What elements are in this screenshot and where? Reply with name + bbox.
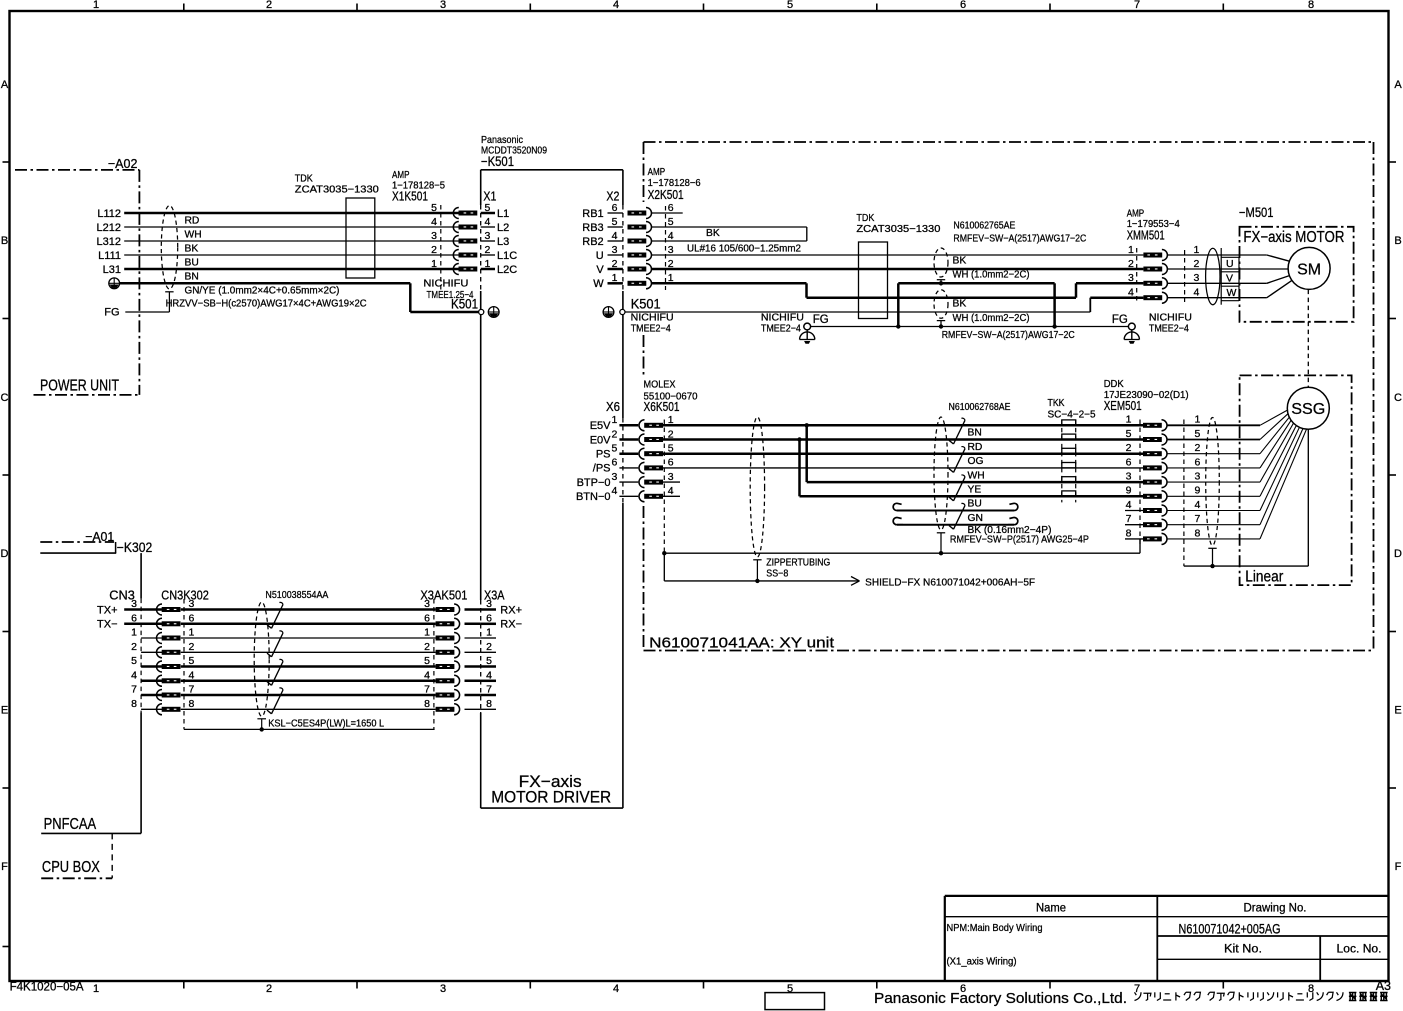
svg-text:MOLEX: MOLEX — [644, 380, 676, 391]
svg-text:1: 1 — [1195, 414, 1201, 426]
svg-text:PNFCAA: PNFCAA — [44, 816, 97, 833]
svg-text:4: 4 — [486, 669, 492, 681]
wire RB1 stub — [652, 212, 683, 214]
shield-FX drain wire — [664, 553, 1035, 588]
svg-text:A: A — [1394, 79, 1402, 91]
svg-text:SHIELD−FX N610071042+006AH−5F: SHIELD−FX N610071042+006AH−5F — [865, 578, 1035, 589]
svg-text:TDK: TDK — [856, 213, 874, 224]
wire WH core K501 to XMM pin4 — [625, 298, 1143, 312]
wire /PS (WH core) — [663, 467, 1143, 469]
svg-text:WH: WH — [185, 229, 202, 240]
svg-text:4: 4 — [131, 669, 137, 681]
svg-text:2: 2 — [131, 641, 137, 653]
svg-text:−A02: −A02 — [108, 156, 137, 171]
svg-text:ZCAT3035−1330: ZCAT3035−1330 — [295, 185, 379, 196]
svg-text:NICHIFU: NICHIFU — [1149, 312, 1192, 323]
wire V — [652, 268, 1144, 271]
svg-text:1: 1 — [1194, 244, 1200, 256]
FG bus wire — [811, 327, 1129, 341]
svg-text:WH: WH — [968, 470, 985, 481]
connector CN3 label — [109, 588, 504, 603]
branch E0V to BU core — [800, 440, 1144, 497]
cable shield oval HRZVV — [161, 206, 177, 312]
svg-text:3: 3 — [668, 244, 674, 256]
svg-text:SSG: SSG — [1291, 401, 1325, 418]
svg-text:4: 4 — [611, 485, 617, 497]
svg-text:GN/YE (1.0mm2×4C+0.65mm×2C): GN/YE (1.0mm2×4C+0.65mm×2C) — [185, 286, 340, 297]
svg-text:CPU BOX: CPU BOX — [42, 859, 100, 876]
Linear scale block — [1240, 375, 1352, 585]
svg-text:RB1: RB1 — [582, 208, 603, 220]
svg-text:RX−: RX− — [500, 619, 522, 631]
FG terminal 2 NICHIFU TMEE2-4 — [1112, 312, 1192, 344]
svg-text:X6K501: X6K501 — [644, 399, 680, 414]
link SM to SSG (dashed) — [1307, 290, 1309, 388]
svg-text:ZIPPERTUBING: ZIPPERTUBING — [766, 558, 830, 569]
shield oval SSG cable — [1206, 418, 1220, 569]
ferrite TDK ZCAT3035-1330 (1) — [295, 173, 379, 278]
svg-text:5: 5 — [668, 216, 674, 228]
svg-text:BK: BK — [953, 255, 967, 266]
svg-text:W: W — [1227, 287, 1237, 299]
svg-text:5: 5 — [486, 655, 492, 667]
svg-text:2: 2 — [266, 983, 272, 995]
svg-text:7: 7 — [424, 684, 430, 696]
encoder cable shield oval (X6 side) — [750, 417, 764, 581]
svg-text:D: D — [1, 548, 9, 560]
svg-text:W: W — [593, 278, 604, 290]
connector X1 label — [483, 188, 496, 203]
svg-text:U: U — [1226, 258, 1234, 270]
svg-text:GN: GN — [968, 513, 983, 524]
svg-text:7: 7 — [1126, 513, 1132, 525]
svg-text:8: 8 — [1308, 0, 1314, 11]
svg-text:3: 3 — [486, 598, 492, 610]
svg-text:F: F — [1, 861, 8, 873]
svg-text:Linear: Linear — [1245, 569, 1283, 586]
svg-text:5: 5 — [787, 0, 793, 11]
svg-text:SM: SM — [1297, 261, 1321, 278]
terminal K501 NICHIFU TMEE2-4 (X2 side) — [603, 297, 674, 335]
svg-text:5: 5 — [424, 655, 430, 667]
svg-text:4: 4 — [1126, 499, 1132, 511]
connector XMM501 pins — [1128, 244, 1200, 303]
svg-text:MOTOR DRIVER: MOTOR DRIVER — [491, 788, 611, 807]
svg-text:4: 4 — [612, 230, 618, 242]
svg-text:1: 1 — [486, 627, 492, 639]
hook BK core — [893, 518, 1018, 525]
svg-text:3: 3 — [1126, 471, 1132, 483]
svg-text:F4K1020−05A: F4K1020−05A — [10, 979, 84, 993]
svg-text:1: 1 — [611, 414, 617, 426]
svg-text:BK: BK — [185, 243, 199, 254]
X3A pin stubs and RX labels — [481, 598, 522, 710]
svg-text:BK: BK — [953, 299, 967, 310]
XY unit boundary box N610071041AA — [644, 142, 1374, 652]
svg-text:5: 5 — [131, 655, 137, 667]
svg-text:NPM:Main Body Wiring: NPM:Main Body Wiring — [947, 923, 1043, 934]
svg-text:−K501: −K501 — [481, 154, 514, 169]
svg-text:Panasonic: Panasonic — [481, 135, 523, 146]
connector label AMP 1-179553-4 XMM501 — [1127, 209, 1180, 243]
svg-text:8: 8 — [424, 698, 430, 710]
X1 pin stubs inside driver — [481, 213, 495, 269]
svg-text:BU: BU — [185, 257, 199, 268]
svg-text:Panasonic Factory Solutions Co: Panasonic Factory Solutions Co.,Ltd. — [874, 991, 1127, 1007]
ferrite TDK ZCAT3035-1330 (2) — [856, 213, 940, 319]
svg-text:L2C: L2C — [497, 264, 517, 276]
svg-text:E0V: E0V — [590, 434, 611, 446]
svg-text:TMEE2−4: TMEE2−4 — [631, 323, 671, 334]
servo motor SM — [1288, 247, 1330, 289]
svg-text:2: 2 — [431, 244, 437, 256]
svg-text:AMP: AMP — [392, 170, 410, 181]
jumper wire BK RB3-RB2 — [652, 227, 807, 241]
svg-text:AMP: AMP — [1127, 209, 1145, 220]
svg-text:RMFEV−SW−P(2517) AWG25−4P: RMFEV−SW−P(2517) AWG25−4P — [950, 535, 1089, 546]
svg-text:BTP−0: BTP−0 — [577, 477, 611, 489]
svg-text:3: 3 — [1128, 272, 1134, 284]
FX-axis MOTOR block -M501 — [1239, 205, 1354, 322]
wire E5V (BN core) — [663, 423, 1143, 427]
svg-text:TDK: TDK — [295, 173, 313, 184]
svg-text:2: 2 — [611, 428, 617, 440]
svg-text:3: 3 — [1194, 272, 1200, 284]
shield oval 4P cable — [934, 417, 948, 555]
svg-text:2: 2 — [1126, 442, 1132, 454]
svg-text:2: 2 — [1194, 258, 1200, 270]
svg-text:K501: K501 — [631, 297, 661, 312]
wire color labels RD WH BK BU BN — [185, 215, 202, 282]
connector label DDK 17JE23090-02(D1) XEM501 — [1104, 379, 1189, 413]
sheet footer text — [10, 979, 1391, 1007]
svg-text:N610062768AE: N610062768AE — [949, 402, 1011, 413]
svg-text:3: 3 — [612, 244, 618, 256]
svg-text:BN: BN — [968, 428, 982, 439]
svg-text:/PS: /PS — [593, 463, 611, 475]
svg-text:1: 1 — [93, 0, 99, 11]
connector X2 label and pin stubs — [582, 188, 623, 290]
motor terminal labels U V W — [1221, 248, 1239, 305]
svg-text:3: 3 — [424, 598, 430, 610]
svg-text:D: D — [1394, 548, 1402, 560]
cable label N610062768AE — [949, 402, 1011, 413]
svg-text:FG: FG — [1112, 314, 1128, 326]
svg-text:5: 5 — [611, 443, 617, 455]
japanese company name (drawn strokes) — [1135, 992, 1388, 1000]
svg-text:TMEE2−4: TMEE2−4 — [761, 323, 801, 334]
stub BTN-0 — [663, 495, 680, 497]
svg-text:N510038554AA: N510038554AA — [265, 590, 328, 601]
svg-text:7: 7 — [131, 684, 137, 696]
wires into SM motor — [1267, 255, 1292, 298]
svg-text:3: 3 — [611, 471, 617, 483]
svg-text:WH (1.0mm2−2C): WH (1.0mm2−2C) — [953, 313, 1030, 324]
svg-text:5: 5 — [431, 202, 437, 214]
svg-text:2: 2 — [1128, 258, 1134, 270]
svg-text:BTN−0: BTN−0 — [576, 491, 611, 503]
svg-text:6: 6 — [668, 202, 674, 214]
cable shield oval N510038554AA — [254, 602, 269, 716]
svg-text:TKK: TKK — [1048, 398, 1065, 409]
FG wire and label (power unit) — [104, 307, 169, 319]
svg-text:4: 4 — [668, 485, 674, 497]
connector XEM501 pins — [1126, 414, 1201, 545]
svg-text:X1: X1 — [483, 188, 496, 203]
wires L112 L212 L312 L111 L31 to X1K501 — [124, 213, 459, 269]
SSG shield return wire — [1184, 429, 1308, 566]
wire E0V (RD core) — [663, 437, 1143, 441]
svg-text:8: 8 — [131, 698, 137, 710]
svg-text:L31: L31 — [103, 264, 121, 276]
svg-text:A3: A3 — [1376, 979, 1391, 993]
shield collector wire to FG — [896, 283, 1057, 328]
cable wires CN3K302 to X3AK501 — [181, 610, 436, 710]
svg-text:1: 1 — [93, 983, 99, 995]
svg-text:TX+: TX+ — [97, 604, 117, 616]
svg-text:K501: K501 — [451, 297, 478, 312]
svg-text:4: 4 — [613, 0, 619, 11]
svg-text:1: 1 — [612, 272, 618, 284]
svg-text:L3: L3 — [497, 236, 509, 248]
earth wire GN/YE from PE symbol — [109, 278, 479, 312]
connector X3AK501 pins — [424, 598, 481, 715]
svg-text:FG: FG — [813, 314, 829, 326]
svg-text:L112: L112 — [97, 208, 121, 220]
svg-text:4: 4 — [613, 983, 619, 995]
svg-text:HRZVV−SB−H(c2570)AWG17×4C+AWG1: HRZVV−SB−H(c2570)AWG17×4C+AWG19×2C — [166, 298, 368, 309]
svg-text:5: 5 — [1126, 428, 1132, 440]
svg-text:RD: RD — [185, 215, 200, 226]
svg-text:U: U — [596, 250, 604, 262]
svg-text:1: 1 — [1126, 414, 1132, 426]
stub BTP-0 — [663, 481, 680, 483]
svg-text:3: 3 — [440, 983, 446, 995]
connector X2K501 pins — [628, 202, 674, 290]
connector X1K501 pins — [441, 205, 478, 290]
connector boundary dash XMM right — [1184, 250, 1186, 302]
CPU box -A01 -K302 — [40, 529, 152, 599]
svg-text:UL#16 105/600−1.25mm2: UL#16 105/600−1.25mm2 — [687, 243, 801, 254]
svg-text:7: 7 — [1195, 513, 1201, 525]
svg-text:6: 6 — [424, 612, 430, 624]
svg-text:FX−axis MOTOR: FX−axis MOTOR — [1243, 229, 1344, 246]
signal labels L112..L31 and pin numbers X1 — [97, 202, 518, 276]
svg-text:2: 2 — [424, 641, 430, 653]
svg-text:6: 6 — [960, 0, 966, 11]
connector X6 label and stubs — [576, 399, 638, 503]
svg-text:1: 1 — [424, 627, 430, 639]
svg-text:6: 6 — [1195, 456, 1201, 468]
svg-text:L111: L111 — [98, 250, 121, 262]
wire W (BK core) — [652, 283, 1144, 297]
svg-text:7: 7 — [1134, 0, 1140, 11]
svg-text:XMM501: XMM501 — [1127, 227, 1165, 242]
power unit block -A02 — [15, 156, 139, 395]
wire U UL#16 — [652, 243, 1144, 255]
cable label N610062765AE RMFEV-SW-A — [953, 220, 1086, 244]
svg-text:B: B — [1394, 235, 1401, 247]
svg-text:ZCAT3035−1330: ZCAT3035−1330 — [856, 224, 940, 235]
svg-text:8: 8 — [486, 698, 492, 710]
svg-text:2: 2 — [486, 641, 492, 653]
svg-text:1: 1 — [1128, 244, 1134, 256]
svg-text:6: 6 — [668, 457, 674, 469]
svg-text:L2: L2 — [497, 222, 509, 234]
svg-text:V: V — [1226, 272, 1233, 284]
svg-text:L1: L1 — [497, 208, 509, 220]
svg-text:POWER UNIT: POWER UNIT — [40, 378, 119, 395]
svg-text:RMFEV−SW−A(2517)AWG17−2C: RMFEV−SW−A(2517)AWG17−2C — [942, 330, 1075, 341]
svg-text:TX−: TX− — [97, 619, 117, 631]
svg-text:6: 6 — [611, 457, 617, 469]
svg-text:RD: RD — [968, 442, 983, 453]
shield oval motor cable 1 (U/V) — [934, 248, 1030, 285]
PNFCAA / CPU BOX labels — [41, 713, 141, 879]
svg-text:X1K501: X1K501 — [392, 189, 428, 204]
svg-text:SS−8: SS−8 — [766, 569, 788, 580]
shield bus X6 — [662, 539, 1140, 556]
connector label AMP 1-178128-5 X1K501 — [392, 170, 445, 204]
svg-text:WH (1.0mm2−2C): WH (1.0mm2−2C) — [953, 269, 1030, 280]
svg-text:E: E — [1394, 705, 1401, 717]
svg-text:RX+: RX+ — [500, 604, 522, 616]
svg-text:4: 4 — [424, 669, 430, 681]
svg-text:X2K501: X2K501 — [648, 187, 684, 202]
scale head SSG — [1287, 387, 1329, 429]
svg-text:1: 1 — [189, 627, 195, 639]
svg-text:3: 3 — [131, 598, 137, 610]
svg-text:−K302: −K302 — [117, 540, 153, 555]
svg-text:4: 4 — [668, 230, 674, 242]
connector label AMP 1-178128-6 X2K501 — [646, 164, 706, 202]
connector label MOLEX 55100-0670 X6K501 — [642, 379, 704, 414]
svg-text:BN: BN — [185, 271, 199, 282]
cable length label KSL — [184, 719, 435, 732]
svg-text:F: F — [1395, 861, 1402, 873]
svg-text:XEM501: XEM501 — [1104, 398, 1142, 413]
svg-text:A: A — [1, 79, 9, 91]
svg-text:N610071042+005AG: N610071042+005AG — [1179, 922, 1281, 937]
svg-text:RB2: RB2 — [582, 236, 603, 248]
svg-text:AMP: AMP — [648, 167, 666, 178]
svg-text:NICHIFU: NICHIFU — [631, 312, 674, 323]
svg-text:CN3K302: CN3K302 — [161, 588, 209, 603]
svg-text:YE: YE — [968, 485, 982, 496]
svg-text:−M501: −M501 — [1239, 205, 1274, 220]
twisted pair marks N510038554AA — [267, 602, 283, 713]
shield oval motor cable 2 (W/WH) — [934, 290, 1030, 329]
FG terminal 1 NICHIFU TMEE2-4 — [761, 312, 829, 344]
svg-text:C: C — [1, 392, 9, 404]
encoder wires to SSG — [1167, 410, 1307, 566]
svg-text:4: 4 — [431, 216, 437, 228]
svg-text:X6: X6 — [606, 399, 620, 414]
stubs XEM pins 4 7 8 — [1125, 511, 1143, 539]
svg-text:(X1_axis Wiring): (X1_axis Wiring) — [947, 957, 1017, 968]
svg-text:NICHIFU: NICHIFU — [761, 312, 804, 323]
svg-text:DDK: DDK — [1104, 379, 1124, 390]
motor cable bundle oval — [1167, 248, 1288, 304]
svg-text:Drawing No.: Drawing No. — [1244, 903, 1307, 915]
connector CN3K302 pins — [131, 598, 194, 715]
svg-text:2: 2 — [266, 0, 272, 11]
svg-text:1: 1 — [131, 627, 137, 639]
svg-text:2: 2 — [1195, 442, 1201, 454]
svg-text:8: 8 — [1126, 527, 1132, 539]
cable boundary dashes N510038554AA — [184, 599, 434, 729]
svg-text:6: 6 — [1126, 456, 1132, 468]
svg-text:1: 1 — [431, 258, 437, 270]
svg-text:3: 3 — [668, 471, 674, 483]
svg-text:2: 2 — [612, 258, 618, 270]
FX-axis motor driver -K501 box — [481, 135, 623, 808]
svg-text:PS: PS — [596, 449, 611, 461]
svg-text:Name: Name — [1036, 903, 1066, 915]
svg-text:BK: BK — [706, 228, 720, 239]
svg-text:8: 8 — [1195, 527, 1201, 539]
svg-text:N610062765AE: N610062765AE — [953, 220, 1015, 231]
svg-text:5: 5 — [1195, 428, 1201, 440]
svg-text:N610071041AA: XY unit: N610071041AA: XY unit — [649, 635, 835, 652]
svg-text:RMFEV−SW−A(2517)AWG17−2C: RMFEV−SW−A(2517)AWG17−2C — [953, 233, 1086, 244]
svg-text:L312: L312 — [97, 236, 121, 248]
svg-text:3: 3 — [431, 230, 437, 242]
svg-text:NICHIFU: NICHIFU — [423, 278, 468, 289]
svg-text:FG: FG — [104, 307, 119, 319]
twisted pair marks encoder cable — [949, 418, 965, 529]
svg-text:6: 6 — [612, 202, 618, 214]
svg-text:TMEE2−4: TMEE2−4 — [1149, 323, 1189, 334]
svg-text:KSL−C5ES4P(LW)L=1650 L: KSL−C5ES4P(LW)L=1650 L — [268, 719, 384, 730]
svg-text:7: 7 — [486, 684, 492, 696]
wires TX+ TX- — [97, 604, 162, 630]
svg-text:RB3: RB3 — [582, 222, 603, 234]
wire PS (OG core) — [663, 452, 1143, 455]
terminal strip TKK SC-4-2-5 — [1048, 398, 1096, 502]
svg-text:3: 3 — [1195, 471, 1201, 483]
svg-text:C: C — [1394, 392, 1402, 404]
svg-text:6: 6 — [486, 612, 492, 624]
small box bottom center — [765, 993, 825, 1010]
title block — [945, 896, 1389, 981]
core labels BN RD OG WH YE BU GN BK — [950, 428, 1089, 546]
svg-text:5: 5 — [612, 216, 618, 228]
hook GN core — [893, 503, 1018, 510]
svg-text:4: 4 — [1128, 287, 1134, 299]
svg-text:L212: L212 — [97, 222, 121, 234]
zippertubing label — [766, 558, 830, 580]
svg-text:4: 4 — [485, 216, 491, 228]
svg-text:BU: BU — [968, 499, 982, 510]
connector X6K501 pins — [639, 414, 674, 553]
svg-text:6: 6 — [131, 612, 137, 624]
svg-text:Loc. No.: Loc. No. — [1337, 944, 1382, 956]
svg-text:2: 2 — [189, 641, 195, 653]
svg-text:E5V: E5V — [590, 420, 611, 432]
svg-text:OG: OG — [968, 456, 984, 467]
svg-text:Kit No.: Kit No. — [1224, 944, 1262, 956]
svg-text:8: 8 — [189, 698, 195, 710]
svg-text:3: 3 — [485, 230, 491, 242]
svg-text:B: B — [1, 235, 8, 247]
svg-text:9: 9 — [1126, 485, 1132, 497]
svg-text:4: 4 — [1194, 287, 1200, 299]
svg-text:3: 3 — [440, 0, 446, 11]
svg-text:L1C: L1C — [497, 250, 517, 262]
svg-text:9: 9 — [1195, 485, 1201, 497]
branch E5V to YE core — [807, 425, 1143, 482]
